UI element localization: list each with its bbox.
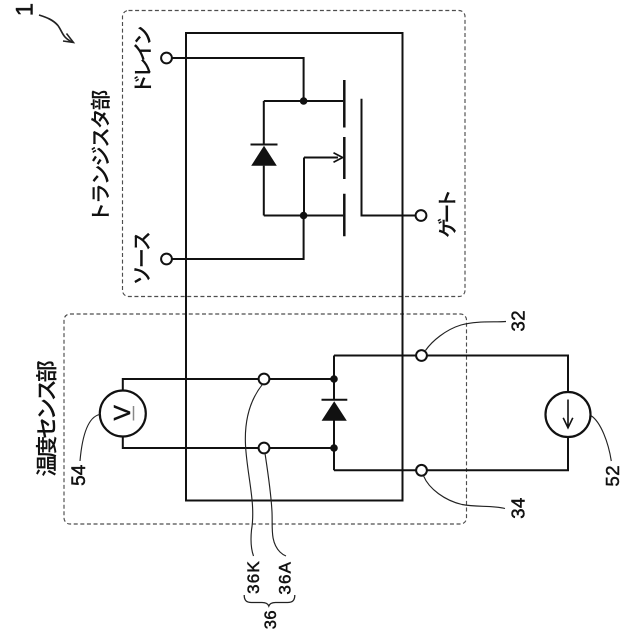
svg-text:36A: 36A [276, 561, 295, 595]
svg-text:36: 36 [262, 610, 280, 629]
svg-text:54: 54 [69, 464, 90, 486]
svg-text:36K: 36K [244, 560, 263, 594]
svg-text:34: 34 [508, 497, 529, 519]
svg-text:52: 52 [602, 465, 623, 487]
svg-text:32: 32 [508, 310, 529, 332]
svg-text:V: V [109, 404, 135, 420]
svg-text:1: 1 [11, 3, 38, 16]
